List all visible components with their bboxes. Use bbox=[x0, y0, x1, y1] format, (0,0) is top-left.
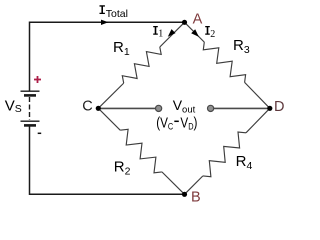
arrow: I2 on A-D branch bbox=[191, 29, 199, 37]
terminal: left Vout bbox=[156, 105, 162, 111]
label I1 bbox=[153, 26, 158, 35]
wire: R2 to B bbox=[162, 172, 185, 194]
arrow: I Total on top rail bbox=[101, 20, 108, 25]
wire: A to R3 bbox=[185, 22, 205, 42]
node C bbox=[96, 106, 101, 111]
wire: C to R2 bbox=[98, 108, 120, 130]
label I2 bbox=[205, 26, 210, 35]
battery VS: cell 2 short plate bbox=[24, 124, 36, 127]
battery plus terminal mark bbox=[34, 76, 41, 83]
battery minus terminal mark bbox=[38, 132, 42, 134]
label (VC - VD) bbox=[156, 114, 197, 132]
svg-text:1: 1 bbox=[158, 28, 163, 39]
battery VS: cell 1 long plate bbox=[21, 90, 40, 92]
resistor R4 bbox=[203, 132, 246, 177]
resistor R2 bbox=[120, 129, 162, 173]
node A bbox=[182, 20, 187, 25]
wire: B to R4 bbox=[185, 176, 203, 194]
resistor R1 bbox=[122, 47, 161, 83]
svg-text:B: B bbox=[191, 189, 201, 205]
wire: R1 to C bbox=[98, 83, 123, 108]
arrow: I1 on A-C branch bbox=[168, 29, 176, 37]
terminal: right Vout bbox=[208, 105, 214, 111]
svg-text:C: C bbox=[82, 99, 92, 115]
label I Total bbox=[100, 5, 105, 14]
svg-text:A: A bbox=[193, 11, 203, 27]
svg-text:Total: Total bbox=[106, 8, 128, 20]
battery VS: cell 1 short plate bbox=[24, 94, 36, 97]
battery VS: dashed cell continuation bbox=[29, 97, 31, 120]
resistor R3 bbox=[203, 42, 245, 82]
node D bbox=[267, 106, 272, 111]
wire: right Vout terminal to D bbox=[214, 107, 270, 109]
wire: C to left Vout terminal bbox=[98, 107, 155, 109]
battery VS: cell 2 long plate bbox=[21, 120, 40, 122]
wire: R4 to D bbox=[246, 108, 270, 133]
svg-text:2: 2 bbox=[210, 29, 215, 40]
wire: bottom rail from battery to node B bbox=[30, 126, 185, 194]
wire: top rail from battery to node A bbox=[30, 22, 185, 90]
wire: A to R1 bbox=[160, 22, 185, 47]
wire: R3 to D bbox=[245, 82, 270, 108]
node B bbox=[182, 192, 187, 197]
svg-text:D: D bbox=[274, 99, 284, 115]
